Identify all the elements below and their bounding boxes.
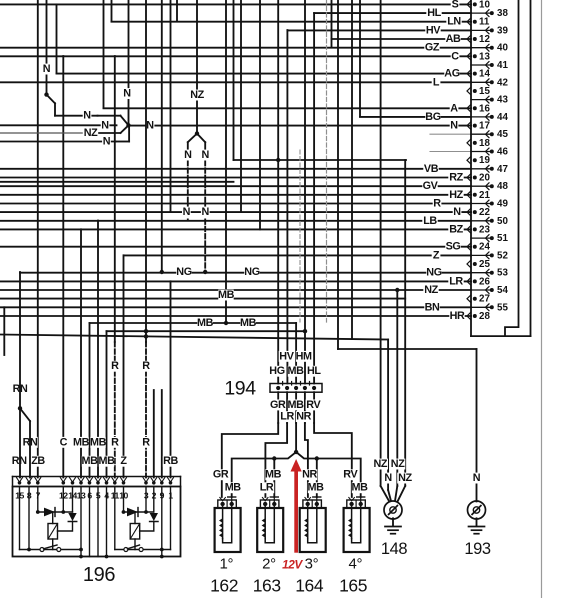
wire R to pin 49 [0, 203, 471, 205]
junction fan [126, 123, 130, 127]
junction [315, 502, 319, 506]
pin 18 [467, 140, 471, 147]
pin 23 [467, 226, 471, 233]
wire [308, 504, 317, 543]
svg-text:N: N [83, 110, 91, 122]
svg-text:GZ: GZ [425, 42, 440, 54]
wire [307, 504, 309, 539]
diode D2 vertical [68, 513, 76, 521]
svg-text:R: R [433, 198, 441, 210]
junction [272, 502, 276, 506]
label Z [119, 456, 128, 467]
label MB [288, 366, 303, 377]
junction [152, 481, 156, 485]
junction [61, 510, 65, 514]
wire HZ to pin 21 [0, 194, 471, 196]
label NR [296, 411, 311, 422]
svg-text:165: 165 [339, 576, 367, 596]
pin chevron 196 [168, 478, 174, 483]
label N [83, 110, 92, 121]
label R [111, 361, 120, 372]
junction [113, 481, 117, 485]
wire [389, 506, 398, 515]
label MB [240, 318, 255, 329]
wire R upper [114, 56, 116, 342]
svg-text:NR: NR [302, 469, 317, 481]
wire AB to pin 12 [332, 38, 472, 40]
wire corner to BG [359, 0, 361, 117]
svg-text:NZ: NZ [398, 472, 412, 484]
pin 19 [467, 157, 471, 164]
label N [384, 473, 393, 484]
junction RN switch [18, 406, 22, 410]
wire [180, 477, 182, 487]
wire [28, 487, 30, 550]
wire [44, 545, 58, 549]
label GZ [424, 42, 439, 53]
wire [62, 487, 64, 513]
wire N upper left [46, 0, 48, 95]
wire MB vertical [225, 0, 227, 323]
pin 21 [467, 191, 471, 198]
junction [490, 115, 494, 119]
svg-text:RZ: RZ [449, 172, 463, 184]
svg-text:13: 13 [479, 51, 490, 62]
label NG [426, 267, 441, 278]
svg-text:12V: 12V [282, 558, 303, 572]
wire 194 pin down [313, 392, 315, 423]
wire [187, 161, 189, 221]
wire [0, 132, 84, 134]
wire to 148 corner [0, 335, 388, 340]
wire GV to pin 48 [0, 185, 471, 187]
svg-text:N: N [201, 206, 209, 218]
label MB [197, 318, 212, 329]
svg-text:MB: MB [240, 317, 257, 329]
wire MB down to 196 pin 6 [89, 323, 91, 478]
svg-text:193: 193 [464, 540, 491, 558]
wire A to pin 16 [104, 107, 472, 109]
wire diode to coil 2 [140, 522, 154, 532]
label MB [99, 456, 114, 467]
wire SG to pin 24 [0, 246, 471, 248]
svg-text:NZ: NZ [84, 127, 98, 139]
wire [530, 0, 532, 336]
svg-text:20: 20 [479, 173, 490, 184]
svg-text:R: R [142, 360, 150, 372]
pin 26 [467, 278, 471, 285]
svg-text:19: 19 [479, 155, 490, 166]
junction [359, 502, 363, 506]
label NZ [397, 473, 412, 484]
wire corner to AB [331, 0, 333, 47]
wire [541, 0, 543, 598]
label N [184, 150, 193, 161]
svg-text:MB: MB [218, 289, 235, 301]
wire corner to AG [56, 4, 58, 73]
label SG [445, 241, 460, 252]
svg-text:SG: SG [446, 241, 461, 253]
junction [473, 72, 477, 76]
wire unlabeled [0, 298, 405, 300]
svg-text:163: 163 [253, 576, 281, 596]
wire [130, 524, 140, 540]
wire 194 pin down [304, 392, 306, 423]
wire [226, 500, 228, 508]
label NG [176, 267, 191, 278]
wire RN to 196 pin 8 [29, 421, 31, 477]
svg-text:NG: NG [426, 267, 441, 279]
wire AG to pin 14 [57, 73, 472, 75]
svg-text:N: N [384, 472, 392, 484]
junction [473, 106, 477, 110]
wire 194 pin down [286, 392, 288, 423]
wire RN down to 196 pin 15 [19, 272, 21, 478]
label ZB [30, 456, 45, 467]
wire [128, 125, 130, 141]
label N [201, 150, 210, 161]
relay coil K2 [130, 524, 140, 540]
pin chevron 196 [78, 478, 84, 483]
wire [72, 487, 74, 513]
svg-text:24: 24 [479, 242, 490, 253]
svg-text:15: 15 [479, 86, 490, 97]
svg-text:NG: NG [176, 266, 191, 278]
svg-text:46: 46 [497, 147, 508, 158]
wire [80, 487, 82, 557]
junction [160, 548, 164, 552]
pin 11 [467, 18, 471, 25]
junction [88, 481, 92, 485]
label N [450, 120, 459, 131]
svg-text:NZ: NZ [190, 89, 204, 101]
junction [490, 63, 494, 67]
injector 165 [344, 508, 370, 552]
wire [68, 521, 76, 523]
svg-text:R: R [111, 360, 119, 372]
wire [471, 116, 490, 118]
wire horizontal mid [234, 159, 407, 161]
red arrow 12V [294, 468, 298, 553]
wire [13, 476, 181, 478]
wire [474, 533, 479, 535]
junction [490, 288, 494, 292]
svg-text:MB: MB [73, 436, 90, 448]
pin chevron 196 [143, 478, 149, 483]
pin 24 [467, 243, 471, 250]
junction [473, 193, 477, 197]
pin dot 194 [294, 386, 298, 390]
svg-text:GR: GR [213, 469, 229, 481]
svg-text:HZ: HZ [449, 189, 463, 201]
wire to 196 pin 9 [161, 390, 163, 478]
junction on NG wire [203, 270, 207, 274]
label BG [425, 112, 440, 123]
label N [182, 207, 191, 218]
junction [144, 334, 148, 338]
wire NZ down to 148 [404, 160, 406, 486]
junction [105, 555, 109, 559]
label RV [306, 400, 321, 411]
svg-text:GV: GV [423, 180, 439, 192]
junction [122, 481, 126, 485]
svg-text:43: 43 [497, 95, 508, 106]
junction [473, 2, 477, 6]
wire [316, 497, 318, 504]
junction [490, 202, 494, 206]
svg-text:196: 196 [83, 564, 115, 586]
svg-text:50: 50 [497, 216, 508, 227]
pin 16 [467, 105, 471, 112]
wire [471, 203, 490, 205]
wire [145, 487, 147, 513]
junction [490, 11, 494, 15]
wire [471, 185, 490, 187]
wire [311, 500, 313, 508]
wire [134, 539, 136, 550]
junction [473, 262, 477, 266]
label BZ [448, 224, 463, 235]
wire NZ to pin 54 [0, 289, 471, 291]
label R [111, 437, 120, 448]
svg-text:27: 27 [479, 294, 490, 305]
wire [19, 487, 21, 550]
wire [360, 497, 362, 504]
wire [351, 504, 353, 539]
wire [471, 133, 490, 135]
wire NZ [196, 0, 198, 134]
wire [170, 487, 172, 550]
label MB [352, 482, 367, 493]
svg-text:Z: Z [433, 249, 440, 261]
wire NG to pin 53 [20, 272, 471, 274]
svg-text:HL: HL [427, 7, 441, 19]
wire LB to pin 50 [0, 220, 471, 222]
vertical wire [170, 0, 172, 212]
svg-text:18: 18 [479, 138, 490, 149]
wire [114, 487, 116, 550]
svg-text:LR: LR [280, 411, 294, 423]
pin chevron 196 [17, 478, 23, 483]
svg-text:R: R [142, 436, 150, 448]
junction [490, 28, 494, 32]
label L [432, 77, 441, 88]
svg-text:28: 28 [479, 311, 490, 322]
label BN [424, 302, 439, 313]
svg-text:48: 48 [497, 181, 508, 192]
wire MB down to 196 pin 4 [106, 331, 108, 477]
pin chevron 196 [26, 478, 32, 483]
junction [36, 481, 40, 485]
junction on NG wire [160, 270, 164, 274]
wire [314, 423, 352, 497]
wire HM down to 194 [304, 0, 306, 384]
junction [220, 502, 224, 506]
label NZ [189, 90, 204, 101]
wire diode to coil [58, 522, 73, 532]
label GR [270, 400, 285, 411]
svg-text:45: 45 [497, 129, 508, 140]
wire R upper [145, 0, 147, 342]
wire [385, 526, 401, 528]
wire [37, 487, 39, 513]
faint vertical wire [326, 0, 328, 322]
svg-text:HV: HV [426, 24, 441, 36]
label RV [343, 469, 358, 480]
pin 14 [467, 70, 471, 77]
wire [116, 141, 129, 143]
junction [473, 158, 477, 162]
wire C to pin 13 [0, 55, 471, 57]
pin 17 [467, 122, 471, 129]
junction [144, 329, 148, 333]
wire horizontal to HM [107, 330, 306, 332]
svg-text:11: 11 [479, 17, 490, 28]
junction [44, 92, 48, 96]
pin chevron 196 [159, 478, 165, 483]
label RB [163, 456, 178, 467]
junction [473, 314, 477, 318]
svg-text:22: 22 [479, 207, 490, 218]
junction [490, 184, 494, 188]
svg-text:51: 51 [497, 233, 508, 244]
pin 28 [467, 313, 471, 320]
svg-text:MB: MB [265, 469, 282, 481]
junction [473, 141, 477, 145]
svg-text:NZ: NZ [391, 458, 405, 470]
tick 194 [291, 382, 293, 386]
wire [472, 506, 481, 515]
svg-text:N: N [453, 206, 461, 218]
wire [357, 496, 365, 498]
label MB [265, 469, 280, 480]
junction [230, 502, 234, 506]
wire [391, 533, 396, 535]
diode D3 [127, 508, 138, 517]
wire [470, 0, 472, 336]
label N [102, 136, 111, 147]
wire HL down to 194 [313, 13, 315, 384]
wire corner to 193 run [337, 0, 339, 349]
pin chevron 196 [95, 478, 101, 483]
wire [469, 526, 485, 528]
wire [471, 335, 531, 337]
injector 164 [300, 508, 326, 552]
pin 22 [467, 209, 471, 216]
wire [123, 487, 125, 513]
svg-text:41: 41 [497, 60, 508, 71]
svg-text:17: 17 [479, 121, 490, 132]
label HV [279, 351, 294, 362]
label N [453, 207, 462, 218]
svg-text:R: R [111, 436, 119, 448]
svg-text:25: 25 [479, 259, 490, 270]
junction MB to injector 2 [272, 456, 276, 460]
label R [142, 361, 151, 372]
wire Z down to 196 pin 10 [123, 255, 125, 477]
svg-text:12: 12 [479, 34, 490, 45]
wire [265, 504, 274, 543]
wire [124, 511, 154, 513]
pin 25 [467, 261, 471, 268]
wire diagonal [47, 95, 56, 104]
wire [471, 272, 490, 274]
wire [269, 500, 271, 508]
svg-text:N: N [43, 63, 51, 75]
svg-text:NZ: NZ [374, 458, 388, 470]
pin dot 194 [285, 386, 289, 390]
wire stub left edge [3, 307, 5, 355]
svg-text:S: S [452, 0, 459, 10]
label N [42, 64, 51, 75]
svg-text:21: 21 [479, 190, 490, 201]
svg-text:39: 39 [497, 25, 508, 36]
svg-text:MB: MB [82, 455, 99, 467]
wire [471, 220, 490, 222]
svg-text:40: 40 [497, 43, 508, 54]
label N above 193 [472, 473, 481, 484]
wire to 193 [338, 348, 477, 350]
label HG [269, 366, 284, 377]
label MB [82, 456, 97, 467]
label NR [302, 469, 317, 480]
junction [490, 219, 494, 223]
junction [490, 305, 494, 309]
wire [270, 496, 278, 498]
pin chevron 196 [35, 478, 41, 483]
svg-text:194: 194 [224, 378, 256, 400]
svg-text:26: 26 [479, 276, 490, 287]
wire HV to pin 39 [287, 29, 471, 31]
wire [48, 524, 58, 540]
svg-text:1°: 1° [220, 556, 234, 573]
junction [169, 481, 173, 485]
junction [490, 98, 494, 102]
label MB [308, 482, 323, 493]
svg-text:55: 55 [497, 302, 508, 313]
wire VB to pin 47 [0, 168, 471, 170]
wire BN to pin 55 [0, 306, 471, 308]
pin 20 [467, 174, 471, 181]
wire [97, 487, 99, 557]
pin chevron 196 [121, 478, 127, 483]
wire HV down to 194 [286, 30, 288, 384]
junction MB [294, 450, 298, 454]
label GR [213, 469, 228, 480]
svg-text:N: N [101, 119, 109, 131]
vertical wire [240, 0, 242, 212]
junction [349, 502, 353, 506]
label N [123, 88, 132, 99]
tick 194 [300, 382, 302, 386]
label S [451, 0, 460, 10]
svg-text:ZB: ZB [31, 455, 45, 467]
label LB [422, 215, 437, 226]
junction [18, 481, 22, 485]
junction [473, 176, 477, 180]
label AB [445, 34, 460, 45]
junction [306, 502, 310, 506]
svg-text:RV: RV [306, 399, 321, 411]
wire RZ to pin 20 [0, 177, 471, 179]
svg-text:N: N [146, 120, 154, 132]
wire MB injector 2 [273, 459, 275, 498]
wire [222, 504, 224, 539]
label RN [12, 384, 27, 395]
label MB [288, 400, 303, 411]
wire [223, 504, 232, 543]
junction [473, 20, 477, 24]
